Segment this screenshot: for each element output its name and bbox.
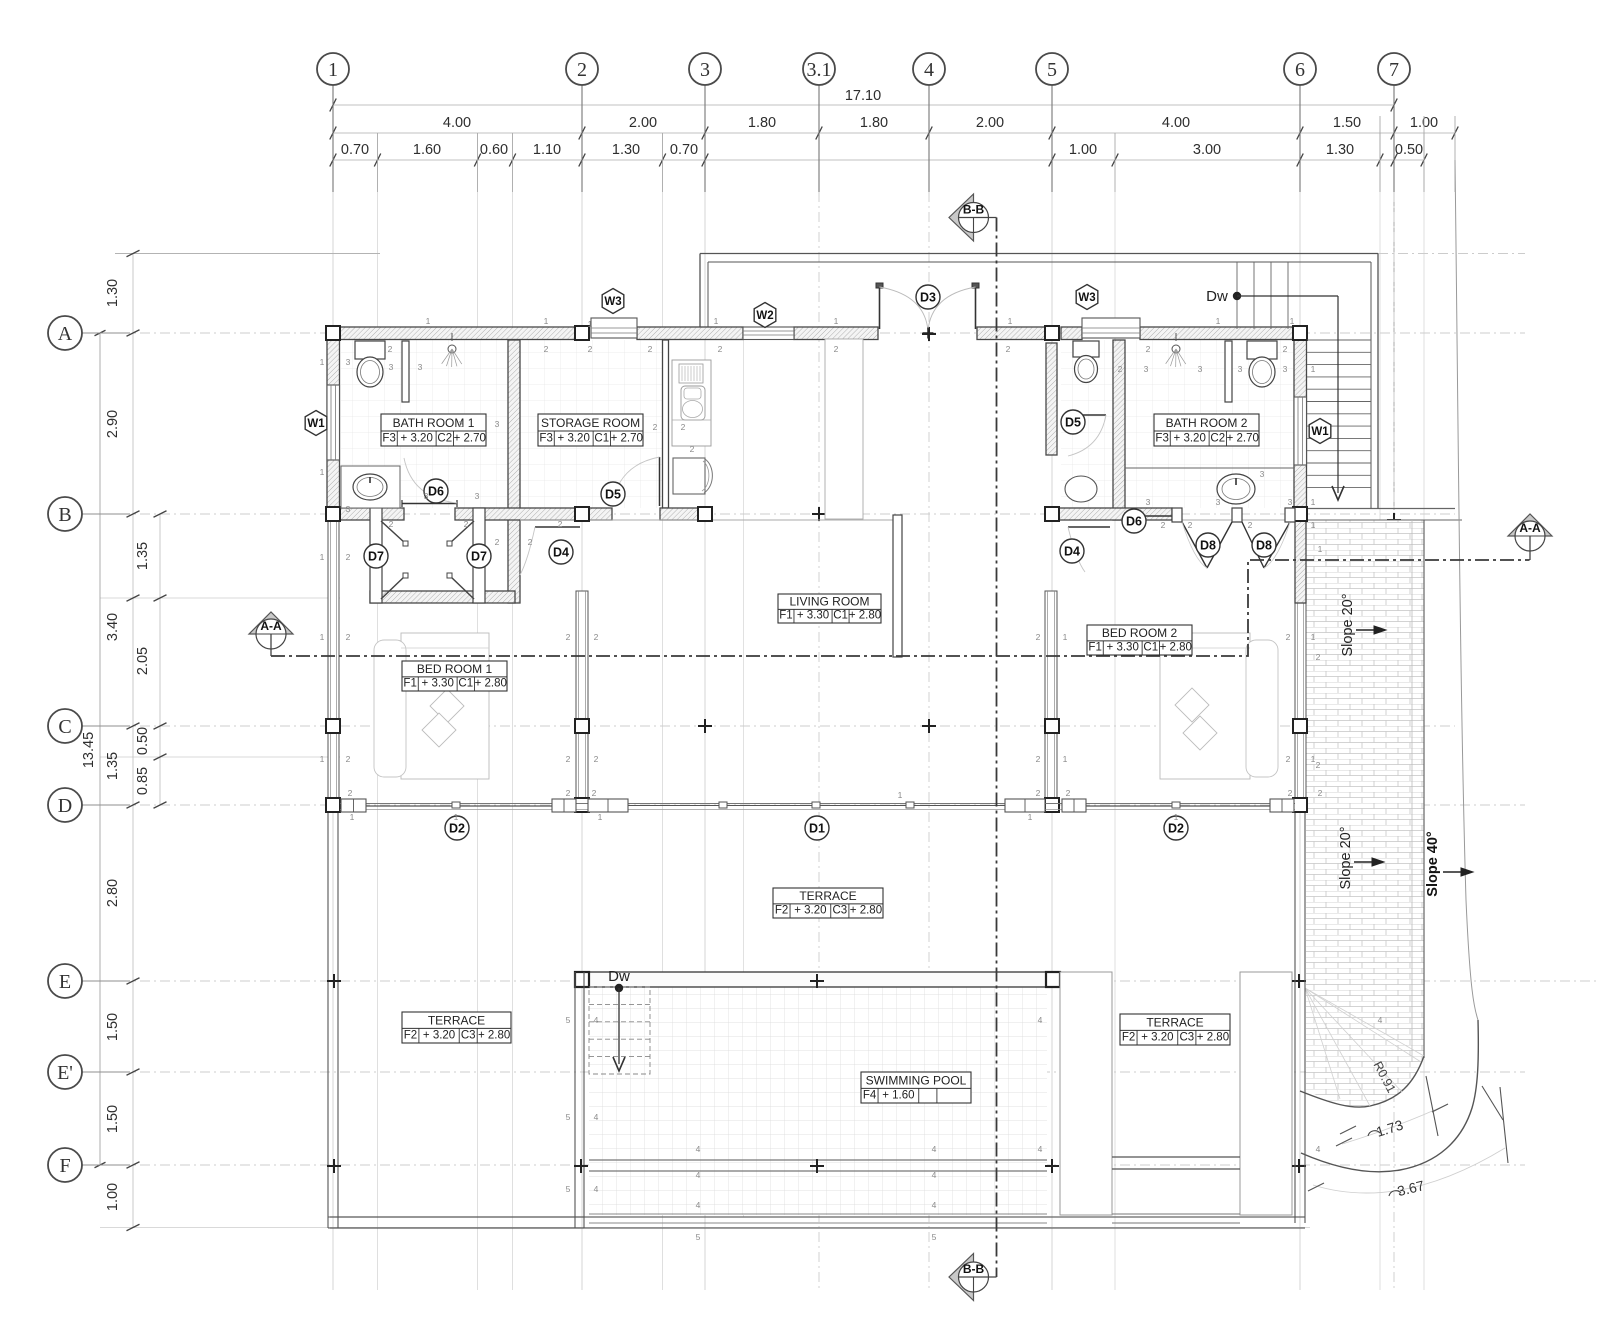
grid5 wall WC segment (A-door) bbox=[1046, 343, 1057, 455]
svg-text:1.00: 1.00 bbox=[1069, 142, 1097, 158]
svg-text:F2: F2 bbox=[404, 1030, 417, 1042]
svg-text:4: 4 bbox=[1038, 1015, 1043, 1025]
svg-text:D4: D4 bbox=[553, 545, 569, 559]
svg-text:C1: C1 bbox=[1143, 642, 1158, 654]
svg-text:D: D bbox=[58, 795, 72, 817]
plus markers bbox=[327, 980, 341, 982]
svg-text:F2: F2 bbox=[1122, 1032, 1135, 1044]
svg-text:2: 2 bbox=[1286, 754, 1291, 764]
door tag D5 right bbox=[1061, 410, 1085, 434]
svg-text:3.00: 3.00 bbox=[1193, 142, 1221, 158]
svg-text:1: 1 bbox=[714, 316, 719, 326]
svg-text:17.10: 17.10 bbox=[845, 88, 881, 104]
svg-text:1: 1 bbox=[1063, 632, 1068, 642]
svg-text:5: 5 bbox=[932, 1232, 937, 1242]
svg-text:3: 3 bbox=[459, 419, 464, 429]
svg-text:F3: F3 bbox=[382, 433, 395, 445]
section line B-B bbox=[996, 218, 998, 1278]
svg-text:1.80: 1.80 bbox=[860, 115, 888, 131]
window W3 right in wall A bbox=[1082, 318, 1140, 338]
upper living-room block outline bbox=[700, 253, 1378, 255]
svg-text:2: 2 bbox=[592, 788, 597, 798]
svg-text:4: 4 bbox=[594, 1184, 599, 1194]
svg-text:4: 4 bbox=[594, 1112, 599, 1122]
svg-text:2: 2 bbox=[346, 552, 351, 562]
svg-text:2: 2 bbox=[690, 444, 695, 454]
door D4 right bbox=[1068, 526, 1110, 528]
door tag D4 left bbox=[549, 540, 573, 564]
svg-text:2.05: 2.05 bbox=[135, 647, 151, 675]
bath2 toilet stub wall bbox=[1225, 341, 1232, 402]
svg-text:2: 2 bbox=[1286, 632, 1291, 642]
window W2 in wall A bbox=[743, 327, 794, 340]
svg-text:2: 2 bbox=[1146, 344, 1151, 354]
door D5 storage bbox=[659, 457, 661, 506]
right terrace planter right bbox=[1240, 972, 1292, 1215]
wardrobe doors D8 (V pattern) bbox=[1172, 508, 1182, 522]
svg-text:F1: F1 bbox=[1088, 642, 1101, 654]
svg-text:1.80: 1.80 bbox=[748, 115, 776, 131]
svg-text:0.70: 0.70 bbox=[341, 142, 369, 158]
svg-text:D8: D8 bbox=[1200, 538, 1216, 552]
section marker B-B top bbox=[949, 194, 974, 241]
svg-text:TERRACE: TERRACE bbox=[428, 1013, 485, 1027]
svg-text:BATH ROOM 2: BATH ROOM 2 bbox=[1166, 416, 1248, 430]
svg-text:2: 2 bbox=[588, 344, 593, 354]
grid6 wall bath2 (A-B) bbox=[1294, 327, 1307, 520]
svg-text:1: 1 bbox=[320, 754, 325, 764]
svg-text:C: C bbox=[58, 716, 71, 738]
svg-text:2: 2 bbox=[1318, 788, 1323, 798]
svg-text:STORAGE ROOM: STORAGE ROOM bbox=[541, 416, 640, 430]
pool bottom deck band bbox=[330, 1216, 1305, 1218]
svg-text:A: A bbox=[58, 323, 73, 345]
driveway top edge bbox=[1306, 508, 1455, 510]
svg-text:4.00: 4.00 bbox=[1162, 115, 1190, 131]
svg-text:3: 3 bbox=[346, 357, 351, 367]
driveway outer curve bbox=[1301, 1020, 1478, 1172]
door tag D2 right bbox=[1164, 816, 1188, 840]
svg-text:4: 4 bbox=[696, 1200, 701, 1210]
svg-text:2: 2 bbox=[1161, 520, 1166, 530]
window tag W2 bbox=[754, 303, 776, 328]
svg-text:2: 2 bbox=[681, 422, 686, 432]
svg-text:1.35: 1.35 bbox=[105, 752, 121, 780]
grid5 wall bedroom2 (B-D) bbox=[1045, 591, 1057, 805]
shower bath1 bbox=[448, 345, 456, 353]
svg-text:Dw: Dw bbox=[1206, 288, 1228, 305]
svg-text:4: 4 bbox=[924, 59, 934, 81]
svg-text:1: 1 bbox=[1311, 520, 1316, 530]
left wall grid1 bathroom (A-B) bbox=[327, 327, 340, 514]
svg-text:1: 1 bbox=[834, 316, 839, 326]
right terrace planter left bbox=[1060, 972, 1112, 1215]
door D6 bath1 bbox=[402, 503, 457, 505]
door tag D8 left bbox=[1196, 533, 1220, 557]
svg-text:C2: C2 bbox=[437, 433, 452, 445]
svg-text:2: 2 bbox=[1283, 344, 1288, 354]
svg-text:+ 2.80: + 2.80 bbox=[1197, 1032, 1229, 1044]
label living room bbox=[778, 594, 881, 623]
svg-text:F3: F3 bbox=[539, 433, 552, 445]
svg-text:+ 2.80: + 2.80 bbox=[475, 678, 507, 690]
svg-text:+ 2.80: + 2.80 bbox=[1160, 642, 1192, 654]
svg-text:3: 3 bbox=[1288, 497, 1293, 507]
svg-text:B-B: B-B bbox=[963, 1262, 985, 1276]
svg-text:2: 2 bbox=[1066, 788, 1071, 798]
driveway inner curve R0.91 bbox=[1300, 1056, 1424, 1107]
W1 window right wall bbox=[1294, 397, 1307, 465]
label swimming pool bbox=[861, 1072, 971, 1103]
svg-text:2.80: 2.80 bbox=[105, 879, 121, 907]
svg-text:4: 4 bbox=[932, 1170, 937, 1180]
svg-text:1.60: 1.60 bbox=[413, 142, 441, 158]
svg-text:+ 2.80: + 2.80 bbox=[478, 1030, 510, 1042]
svg-text:W3: W3 bbox=[1078, 292, 1095, 304]
wc sink small bbox=[1065, 476, 1097, 502]
svg-text:3: 3 bbox=[1146, 497, 1151, 507]
svg-text:0.50: 0.50 bbox=[135, 727, 151, 755]
svg-text:A-A: A-A bbox=[260, 619, 282, 633]
svg-text:2.00: 2.00 bbox=[976, 115, 1004, 131]
pool inner edge lines bbox=[589, 1159, 1047, 1161]
svg-text:1: 1 bbox=[320, 467, 325, 477]
svg-text:1.30: 1.30 bbox=[612, 142, 640, 158]
svg-text:F2: F2 bbox=[775, 905, 788, 917]
svg-text:2: 2 bbox=[834, 344, 839, 354]
svg-text:4.00: 4.00 bbox=[443, 115, 471, 131]
svg-text:F4: F4 bbox=[863, 1090, 877, 1102]
svg-text:W2: W2 bbox=[756, 310, 773, 322]
svg-text:C1: C1 bbox=[458, 678, 473, 690]
svg-text:2: 2 bbox=[577, 59, 587, 81]
svg-text:+ 3.20: + 3.20 bbox=[794, 905, 826, 917]
door tag D5 left bbox=[601, 482, 625, 506]
svg-text:4: 4 bbox=[594, 1015, 599, 1025]
door D4 left bbox=[535, 526, 580, 528]
svg-text:F1: F1 bbox=[403, 678, 416, 690]
svg-text:D7: D7 bbox=[471, 549, 487, 563]
svg-text:2: 2 bbox=[1118, 364, 1123, 374]
construction fan lines bbox=[1305, 988, 1340, 1099]
svg-text:5: 5 bbox=[1047, 59, 1057, 81]
D1 door track bbox=[628, 805, 1005, 807]
label bed room 1 bbox=[402, 661, 507, 691]
svg-text:2: 2 bbox=[566, 632, 571, 642]
svg-text:2: 2 bbox=[1036, 632, 1041, 642]
svg-text:BED ROOM 1: BED ROOM 1 bbox=[417, 662, 493, 676]
bed 1 bbox=[401, 633, 489, 779]
toilet bath1 bbox=[355, 341, 385, 359]
svg-text:1: 1 bbox=[598, 812, 603, 822]
svg-text:2: 2 bbox=[388, 344, 393, 354]
kitchen counter bbox=[672, 360, 711, 446]
svg-text:1: 1 bbox=[426, 316, 431, 326]
svg-text:1: 1 bbox=[320, 357, 325, 367]
svg-text:3: 3 bbox=[495, 419, 500, 429]
svg-text:3: 3 bbox=[1260, 469, 1265, 479]
floor edge lines at B bbox=[520, 519, 893, 521]
svg-text:1: 1 bbox=[328, 59, 338, 81]
stair upper flight bbox=[1236, 262, 1238, 329]
storage right wall (kitchen divider) bbox=[663, 340, 669, 508]
svg-text:B: B bbox=[58, 504, 71, 526]
svg-text:+ 2.80: + 2.80 bbox=[849, 610, 881, 622]
svg-text:+ 3.20: + 3.20 bbox=[423, 1030, 455, 1042]
door tag D4 right bbox=[1060, 539, 1084, 563]
terrace left wall bbox=[327, 805, 329, 1228]
window W1 left wall bbox=[327, 385, 340, 460]
grid6 wall (B-D) bbox=[1295, 520, 1306, 805]
svg-text:3: 3 bbox=[1198, 364, 1203, 374]
svg-text:4: 4 bbox=[696, 1170, 701, 1180]
living room counter bbox=[825, 339, 863, 519]
svg-text:5: 5 bbox=[696, 1232, 701, 1242]
door D5 right (wc) bbox=[1066, 414, 1106, 416]
svg-text:+ 2.70: + 2.70 bbox=[454, 433, 486, 445]
svg-text:2: 2 bbox=[566, 788, 571, 798]
svg-text:1: 1 bbox=[544, 316, 549, 326]
svg-text:+ 2.80: + 2.80 bbox=[850, 905, 882, 917]
stub wall below B (wardrobe1) bbox=[370, 591, 515, 603]
svg-text:6: 6 bbox=[1295, 59, 1305, 81]
sink counter bath1 bbox=[341, 466, 400, 508]
svg-text:Slope 40°: Slope 40° bbox=[1425, 831, 1441, 897]
svg-text:Dw: Dw bbox=[608, 968, 630, 985]
svg-text:1: 1 bbox=[1216, 316, 1221, 326]
svg-text:+ 3.20: + 3.20 bbox=[558, 433, 590, 445]
svg-text:0.85: 0.85 bbox=[135, 767, 151, 795]
bedroom2 / living divider wall bbox=[893, 515, 902, 657]
fridge bbox=[673, 458, 705, 494]
door tag D6 right bbox=[1122, 509, 1146, 533]
bath1 right wall bbox=[508, 340, 520, 603]
door tag D8 right bbox=[1252, 533, 1276, 557]
door tag D6 left bbox=[424, 479, 448, 503]
svg-text:0.70: 0.70 bbox=[670, 142, 698, 158]
svg-text:1: 1 bbox=[1028, 812, 1033, 822]
label bath room 1 bbox=[381, 414, 486, 446]
svg-text:3: 3 bbox=[424, 491, 429, 501]
bath1 toilet stub wall bbox=[402, 341, 409, 402]
door D3 double entry bbox=[879, 285, 881, 329]
svg-text:2: 2 bbox=[389, 519, 394, 529]
svg-text:C3: C3 bbox=[461, 1030, 476, 1042]
svg-text:2: 2 bbox=[648, 344, 653, 354]
bed 2 bbox=[1160, 633, 1250, 779]
svg-text:1: 1 bbox=[898, 790, 903, 800]
svg-text:2.00: 2.00 bbox=[629, 115, 657, 131]
svg-text:1: 1 bbox=[1174, 812, 1179, 822]
section marker A-A right bbox=[1508, 514, 1552, 536]
svg-text:LIVING ROOM: LIVING ROOM bbox=[789, 594, 869, 608]
svg-text:3: 3 bbox=[1283, 364, 1288, 374]
svg-text:3: 3 bbox=[346, 504, 351, 514]
svg-text:2.90: 2.90 bbox=[105, 410, 121, 438]
window tag W3 left bbox=[602, 289, 624, 314]
svg-text:1.30: 1.30 bbox=[1326, 142, 1354, 158]
columns bbox=[326, 326, 340, 340]
svg-text:2: 2 bbox=[718, 344, 723, 354]
svg-text:0.50: 0.50 bbox=[1395, 142, 1423, 158]
svg-text:1.30: 1.30 bbox=[105, 279, 121, 307]
svg-text:E': E' bbox=[57, 1062, 73, 1084]
svg-text:3: 3 bbox=[418, 362, 423, 372]
svg-text:2: 2 bbox=[1316, 760, 1321, 770]
bathroom tiles bbox=[341, 340, 508, 508]
section marker A-A left bbox=[249, 612, 293, 634]
grid6 wall hatch below B bbox=[1295, 520, 1306, 603]
railing caps bbox=[341, 799, 366, 812]
wall B band right unit bbox=[1045, 508, 1172, 520]
door tag D1 bbox=[805, 816, 829, 840]
svg-text:B-B: B-B bbox=[963, 203, 985, 217]
svg-text:SWIMMING POOL: SWIMMING POOL bbox=[866, 1073, 967, 1087]
svg-text:1.35: 1.35 bbox=[135, 542, 151, 570]
svg-text:0.60: 0.60 bbox=[480, 142, 508, 158]
D2 right door track bbox=[1086, 805, 1270, 807]
railing mid handles bbox=[452, 802, 460, 808]
window tag W1 left bbox=[305, 411, 327, 436]
svg-text:2: 2 bbox=[495, 537, 500, 547]
label bed room 2 bbox=[1087, 625, 1192, 655]
svg-text:C1: C1 bbox=[833, 610, 848, 622]
svg-text:TERRACE: TERRACE bbox=[1146, 1015, 1203, 1029]
svg-text:Slope 20°: Slope 20° bbox=[1338, 826, 1354, 889]
label bath room 2 bbox=[1154, 414, 1259, 446]
svg-text:+ 3.30: + 3.30 bbox=[1107, 642, 1139, 654]
label storage room bbox=[538, 414, 643, 446]
svg-text:2: 2 bbox=[1006, 344, 1011, 354]
svg-text:2: 2 bbox=[653, 422, 658, 432]
stair main flight bbox=[1307, 339, 1371, 341]
svg-text:3.40: 3.40 bbox=[105, 613, 121, 641]
svg-text:+ 3.30: + 3.30 bbox=[422, 678, 454, 690]
svg-text:2: 2 bbox=[544, 344, 549, 354]
svg-text:D2: D2 bbox=[1168, 821, 1184, 835]
svg-text:F: F bbox=[59, 1155, 70, 1177]
svg-text:1: 1 bbox=[454, 812, 459, 822]
terrace left bottom bbox=[328, 1216, 584, 1218]
svg-text:F3: F3 bbox=[1155, 433, 1168, 445]
svg-text:+ 2.70: + 2.70 bbox=[611, 433, 643, 445]
wall B band bath1/storage bbox=[327, 508, 404, 520]
wardrobe doors D7 (X pattern) bbox=[370, 508, 382, 603]
svg-text:+ 1.60: + 1.60 bbox=[882, 1090, 914, 1102]
svg-text:D5: D5 bbox=[605, 487, 621, 501]
svg-text:1: 1 bbox=[1311, 632, 1316, 642]
shower bath2 bbox=[1172, 345, 1180, 353]
svg-text:3: 3 bbox=[1144, 364, 1149, 374]
svg-text:2: 2 bbox=[594, 632, 599, 642]
driveway brick strip bbox=[1306, 520, 1424, 1107]
svg-text:3.1: 3.1 bbox=[807, 59, 832, 81]
svg-text:2: 2 bbox=[1188, 520, 1193, 530]
svg-text:1: 1 bbox=[588, 319, 593, 329]
svg-text:3: 3 bbox=[389, 362, 394, 372]
pool top wall bbox=[575, 972, 1060, 987]
svg-text:3: 3 bbox=[700, 59, 710, 81]
svg-text:2: 2 bbox=[348, 788, 353, 798]
wall A band segments bbox=[327, 327, 582, 340]
svg-text:+ 3.30: + 3.30 bbox=[797, 610, 829, 622]
property boundary line bbox=[1455, 160, 1478, 1020]
svg-text:2: 2 bbox=[346, 754, 351, 764]
label terrace mid bbox=[773, 888, 883, 918]
grid bubbles bbox=[317, 53, 349, 85]
svg-text:1: 1 bbox=[1008, 316, 1013, 326]
bath2 left wall bbox=[1113, 340, 1125, 520]
svg-text:1: 1 bbox=[320, 632, 325, 642]
dimension lines left bbox=[132, 254, 134, 1228]
svg-text:2: 2 bbox=[1316, 652, 1321, 662]
terrace left/pool divider wall bbox=[574, 972, 576, 1228]
svg-text:1: 1 bbox=[350, 812, 355, 822]
svg-text:C3: C3 bbox=[832, 905, 847, 917]
svg-text:C2: C2 bbox=[1210, 433, 1225, 445]
svg-text:1.50: 1.50 bbox=[105, 1105, 121, 1133]
grid6 wall (D-bottom) bbox=[1294, 805, 1296, 1223]
door D6 right bath2 bbox=[1125, 515, 1180, 517]
window W3 left in wall A bbox=[591, 318, 637, 338]
svg-text:5: 5 bbox=[566, 1015, 571, 1025]
svg-text:5: 5 bbox=[566, 1184, 571, 1194]
svg-text:C3: C3 bbox=[1179, 1032, 1194, 1044]
svg-text:D6: D6 bbox=[1126, 514, 1142, 528]
D2 left door track bbox=[366, 805, 552, 807]
sink counter bath2 bbox=[1125, 467, 1294, 469]
svg-text:D2: D2 bbox=[449, 821, 465, 835]
label terrace right bbox=[1120, 1014, 1230, 1045]
wc toilet bbox=[1073, 341, 1099, 357]
svg-text:13.45: 13.45 bbox=[81, 732, 97, 768]
construction grid bbox=[332, 192, 334, 1290]
svg-text:1: 1 bbox=[1290, 316, 1295, 326]
svg-text:D1: D1 bbox=[809, 821, 825, 835]
svg-text:1.50: 1.50 bbox=[105, 1013, 121, 1041]
svg-text:4: 4 bbox=[696, 1144, 701, 1154]
grid2 wall bedroom1 (B-D) bbox=[576, 591, 588, 805]
svg-text:A-A: A-A bbox=[1519, 521, 1541, 535]
svg-text:3: 3 bbox=[1238, 364, 1243, 374]
svg-text:BED ROOM 2: BED ROOM 2 bbox=[1102, 626, 1178, 640]
svg-text:4: 4 bbox=[1038, 1144, 1043, 1154]
svg-text:D5: D5 bbox=[1065, 415, 1081, 429]
svg-text:W3: W3 bbox=[604, 296, 621, 308]
section marker B-B bottom bbox=[949, 1254, 974, 1301]
svg-text:2: 2 bbox=[594, 754, 599, 764]
svg-text:W1: W1 bbox=[307, 418, 325, 430]
svg-text:3: 3 bbox=[475, 491, 480, 501]
svg-text:C1: C1 bbox=[594, 433, 609, 445]
svg-text:D7: D7 bbox=[368, 549, 384, 563]
door tag D2 left bbox=[445, 816, 469, 840]
svg-text:1: 1 bbox=[1318, 544, 1323, 554]
door tag D7 right bbox=[467, 544, 491, 568]
svg-text:2: 2 bbox=[558, 519, 563, 529]
svg-text:2: 2 bbox=[1036, 754, 1041, 764]
dimension lines top bbox=[333, 104, 1394, 106]
pool top wall columns bbox=[575, 972, 589, 987]
svg-text:1: 1 bbox=[1311, 364, 1316, 374]
svg-text:2: 2 bbox=[566, 754, 571, 764]
door tag D7 left bbox=[364, 544, 388, 568]
svg-text:2: 2 bbox=[1288, 788, 1293, 798]
svg-text:1: 1 bbox=[320, 552, 325, 562]
svg-text:2: 2 bbox=[1036, 788, 1041, 798]
window tag W3 right bbox=[1076, 285, 1098, 310]
arc dims 1.73 / 3.67 bbox=[1342, 1104, 1448, 1144]
